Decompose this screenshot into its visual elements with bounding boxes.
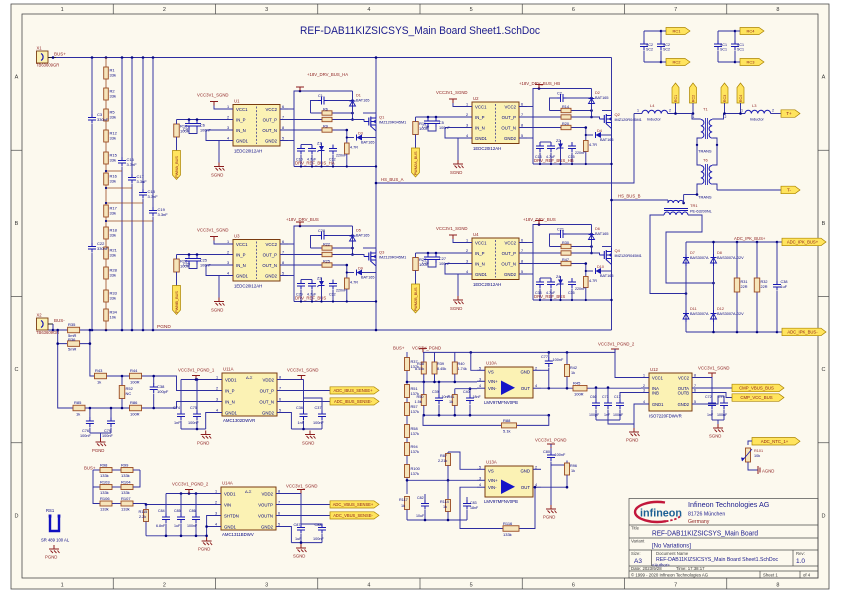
svg-text:GND2: GND2 <box>265 273 278 278</box>
svg-text:Germany: Germany <box>688 519 710 525</box>
svg-text:C75: C75 <box>190 406 197 410</box>
capacitor C84 6.8nF <box>165 494 167 515</box>
gate driver U4 (1EDC20I12AH) <box>472 238 519 280</box>
wire U10A GND <box>541 369 549 371</box>
svg-text:3: 3 <box>265 583 268 589</box>
svg-text:VDD1: VDD1 <box>224 491 236 496</box>
svg-text:C1: C1 <box>318 94 323 98</box>
wire bridge right leg <box>713 242 715 332</box>
resistor R96 1k <box>551 464 567 466</box>
connector X1 <box>37 51 49 63</box>
svg-text:VCC3V1_PGND_2: VCC3V1_PGND_2 <box>598 342 635 347</box>
svg-text:Date: 2023/9/28: Date: 2023/9/28 <box>631 566 662 571</box>
transformer T1 primary winding <box>692 114 701 120</box>
resistor R23 gate <box>288 255 364 257</box>
svg-text:33k: 33k <box>110 211 116 216</box>
svg-text:VCC3V1_SGND: VCC3V1_SGND <box>698 366 730 371</box>
resistor R94 137k <box>405 443 410 456</box>
ground SGND U14A <box>291 542 322 544</box>
resistor R86 100R <box>130 405 142 411</box>
svg-text:R14: R14 <box>562 105 569 109</box>
svg-text:33k: 33k <box>110 296 116 301</box>
wire U12 INB <box>620 393 641 401</box>
svg-text:100nF: 100nF <box>188 421 199 425</box>
svg-text:BAT165: BAT165 <box>595 232 608 236</box>
svg-text:4: 4 <box>535 384 537 388</box>
wire sense+ branch <box>90 344 214 391</box>
wire TR1 to bridge right <box>666 215 714 283</box>
diode D9 BAT165 <box>347 272 354 274</box>
svg-text:GND2: GND2 <box>504 272 517 277</box>
svg-text:[No Variations]: [No Variations] <box>652 544 691 550</box>
svg-text:7: 7 <box>279 387 281 391</box>
svg-text:SC1: SC1 <box>737 43 744 47</box>
wire +18V rail of U2 <box>527 106 533 108</box>
svg-text:6: 6 <box>282 105 284 109</box>
svg-text:U2: U2 <box>473 96 479 101</box>
svg-text:SGND: SGND <box>450 306 462 311</box>
svg-text:IN_P: IN_P <box>236 117 246 122</box>
svg-text:22R: 22R <box>741 285 748 289</box>
svg-text:Document Name: Document Name <box>656 551 689 556</box>
svg-text:R117: R117 <box>399 498 408 502</box>
svg-text:R87: R87 <box>440 454 447 458</box>
svg-text:Sheet 1: Sheet 1 <box>763 573 778 578</box>
svg-text:SGND: SGND <box>211 173 223 178</box>
svg-text:IN_N: IN_N <box>236 128 246 133</box>
capacitor C32 220nF <box>332 280 334 284</box>
svg-text:R88: R88 <box>503 418 511 423</box>
wire DRV_REF rail of U2 <box>533 163 612 165</box>
svg-text:IN_N: IN_N <box>225 399 235 404</box>
svg-text:5: 5 <box>470 583 473 589</box>
svg-text:ADC_VBUS_SENSE+: ADC_VBUS_SENSE+ <box>333 502 374 507</box>
zener Z3 <box>321 278 323 302</box>
svg-text:GND2: GND2 <box>504 136 517 141</box>
svg-text:IN_P: IN_P <box>475 251 485 256</box>
resistor R24 4.7R <box>584 141 589 152</box>
svg-text:Z3: Z3 <box>317 277 321 281</box>
svg-text:1: 1 <box>215 490 217 494</box>
wire U13A VIN- feedback <box>460 487 535 528</box>
ground PGND RS1 <box>53 545 55 549</box>
svg-text:10k: 10k <box>110 315 116 320</box>
resistor R36 5mR <box>58 330 67 344</box>
svg-text:GND1: GND1 <box>236 273 249 278</box>
resistor R31 22R <box>736 242 738 332</box>
wire U10A OUT <box>541 387 641 389</box>
resistor R28 <box>104 267 109 279</box>
svg-text:IMZ120R045M1: IMZ120R045M1 <box>379 121 406 125</box>
resistor R10 100R <box>177 119 226 121</box>
svg-text:4: 4 <box>643 400 645 404</box>
svg-text:Z1: Z1 <box>317 142 321 146</box>
svg-text:GND1: GND1 <box>224 524 237 529</box>
svg-text:R96: R96 <box>570 464 577 468</box>
svg-text:VCC2: VCC2 <box>505 240 517 245</box>
svg-text:1k: 1k <box>449 400 453 404</box>
svg-text:VS: VS <box>488 468 494 473</box>
svg-text:R32: R32 <box>761 280 768 284</box>
capacitor C1 <box>311 101 320 114</box>
title block frame <box>629 499 818 579</box>
svg-text:8: 8 <box>521 124 523 128</box>
svg-text:R31: R31 <box>741 280 748 284</box>
svg-text:U14A: U14A <box>222 481 233 486</box>
port RC2 <box>666 59 690 66</box>
svg-text:SC1: SC1 <box>737 48 744 52</box>
svg-text:R22: R22 <box>323 243 330 247</box>
port RC1 <box>666 28 690 35</box>
svg-text:A3: A3 <box>634 558 642 565</box>
svg-text:2: 2 <box>163 7 166 13</box>
capacitor C23 1nF <box>188 253 191 256</box>
ground PGND U12 <box>596 419 620 421</box>
svg-text:C4: C4 <box>183 128 188 132</box>
svg-text:1uF: 1uF <box>781 285 788 289</box>
wire U12 GND2 <box>700 396 724 404</box>
svg-text:Size:: Size: <box>631 551 641 556</box>
port PWMA_BUS <box>176 137 178 151</box>
resistor R45 100R <box>573 385 587 391</box>
svg-text:1: 1 <box>466 239 468 243</box>
svg-text:4: 4 <box>367 7 370 13</box>
resistor R18 <box>104 227 109 239</box>
svg-text:SGND: SGND <box>211 308 223 313</box>
resistor R100 137k <box>405 465 410 478</box>
svg-text:1: 1 <box>61 583 64 589</box>
wire U13A OUT <box>541 486 567 488</box>
capacitor C60 100pF <box>595 388 597 401</box>
svg-text:ADC_IPK_BUS-: ADC_IPK_BUS- <box>787 330 818 335</box>
svg-text:8: 8 <box>776 7 779 13</box>
svg-text:81726 München: 81726 München <box>688 512 725 518</box>
svg-text:VCC2: VCC2 <box>266 242 278 247</box>
port ADC_IBUS_SENSE- <box>285 401 330 403</box>
svg-text:7: 7 <box>282 251 284 255</box>
resistor R52 NC <box>121 376 123 385</box>
svg-text:BAS3007A: BAS3007A <box>690 312 709 316</box>
svg-text:BUS-: BUS- <box>54 318 65 323</box>
svg-text:PWMB_BUS: PWMB_BUS <box>175 291 179 313</box>
svg-text:BAT165: BAT165 <box>595 96 608 100</box>
svg-text:infineon: infineon <box>640 508 682 520</box>
svg-text:TRANS: TRANS <box>698 195 712 200</box>
capacitor C33 4.7uF <box>539 278 541 282</box>
wire GND2 of U1 <box>288 140 294 142</box>
svg-text:C84: C84 <box>158 509 165 513</box>
resistor R11 100R <box>416 116 465 118</box>
svg-text:4.7R: 4.7R <box>589 279 597 283</box>
resistor R30 <box>550 246 592 248</box>
resistor R20 <box>527 127 586 129</box>
resistor R104 133k <box>112 486 121 488</box>
svg-text:R101: R101 <box>754 449 763 453</box>
svg-text:BUS+: BUS+ <box>54 52 66 57</box>
diode D10 BAT165 <box>586 270 593 272</box>
zener Z4 <box>560 276 562 300</box>
svg-text:4: 4 <box>227 137 229 141</box>
svg-text:TB63609GR: TB63609GR <box>36 63 59 68</box>
port ADC_VBUS_SENSE+ <box>283 504 330 506</box>
connector X2 <box>37 318 49 330</box>
svg-text:2: 2 <box>466 113 468 117</box>
svg-text:C79: C79 <box>104 429 111 433</box>
svg-text:U13A: U13A <box>486 460 497 465</box>
diode D1 BAT165 <box>352 91 354 120</box>
svg-text:OUT_P: OUT_P <box>263 117 277 122</box>
svg-text:BAT165: BAT165 <box>356 99 369 103</box>
svg-text:133k: 133k <box>121 507 130 512</box>
capacitor C6 100nF <box>196 118 199 121</box>
svg-text:VDD2: VDD2 <box>262 491 274 496</box>
ground PGND U11A <box>181 428 206 430</box>
svg-text:1nF: 1nF <box>707 413 714 417</box>
wire GND2 U14A <box>283 527 291 543</box>
svg-text:D1: D1 <box>356 94 361 98</box>
wire DRV_REF rail of U4 <box>533 299 612 301</box>
svg-text:U4: U4 <box>473 232 479 237</box>
svg-text:GND1: GND1 <box>225 410 238 415</box>
resistor R34 <box>104 309 109 321</box>
capacitor C3 <box>91 58 93 115</box>
capacitor C13 4.7uF <box>539 142 541 146</box>
svg-text:IN_P: IN_P <box>236 252 246 257</box>
svg-text:5: 5 <box>278 523 280 527</box>
mosfet Q4 IMZ120R045M1 <box>605 250 607 260</box>
capacitor C4 1nF <box>188 118 191 121</box>
svg-text:7: 7 <box>521 249 523 253</box>
svg-text:6: 6 <box>694 389 696 393</box>
svg-text:R6: R6 <box>323 108 328 112</box>
wire ladder tap <box>106 202 143 204</box>
svg-text:1EDC20I12AH: 1EDC20I12AH <box>234 284 262 289</box>
capacitor C10 4.7uF <box>300 145 302 149</box>
svg-text:137k: 137k <box>411 431 419 436</box>
svg-text:7: 7 <box>674 7 677 13</box>
svg-text:18nF: 18nF <box>473 395 482 399</box>
svg-text:U12: U12 <box>650 367 658 372</box>
capacitor C21 <box>550 234 559 247</box>
svg-text:VCC3V1_PGND_2: VCC3V1_PGND_2 <box>172 482 209 487</box>
svg-text:GND: GND <box>520 468 530 473</box>
svg-text:2: 2 <box>725 115 727 119</box>
resistor R25 <box>288 264 347 266</box>
svg-text:VIN+: VIN+ <box>488 379 498 384</box>
svg-text:R20: R20 <box>562 122 569 126</box>
resistor R27 100R <box>416 252 465 254</box>
wire bridge top rail <box>686 241 777 243</box>
svg-text:3: 3 <box>643 389 645 393</box>
svg-text:R114: R114 <box>440 500 449 504</box>
wire ladder tap <box>106 187 132 189</box>
svg-text:3: 3 <box>466 124 468 128</box>
svg-text:R43: R43 <box>95 368 103 373</box>
svg-text:VCC2: VCC2 <box>505 104 517 109</box>
wire bridge bottom rail <box>686 331 777 333</box>
svg-text:SGND: SGND <box>293 554 305 559</box>
svg-text:100R: 100R <box>130 380 140 385</box>
svg-text:A: A <box>15 75 19 81</box>
svg-text:5: 5 <box>282 272 284 276</box>
svg-text:8: 8 <box>282 126 284 130</box>
svg-text:IN_N: IN_N <box>475 261 485 266</box>
svg-text:ADC_IPK_BUS+: ADC_IPK_BUS+ <box>734 236 766 241</box>
svg-text:VCC1: VCC1 <box>475 240 487 245</box>
svg-text:+18V_DRV_BUS: +18V_DRV_BUS <box>286 217 319 222</box>
resistor R117 1k <box>405 497 410 510</box>
svg-text:R106: R106 <box>100 496 110 501</box>
svg-text:IN_N: IN_N <box>475 125 485 130</box>
gate driver U1 (1EDC20I12AH) <box>233 105 280 147</box>
wire GND2 U11A <box>285 413 291 430</box>
capacitor C18 <box>142 58 144 190</box>
svg-text:R45: R45 <box>573 381 581 386</box>
port ADC_IPK_BUS- <box>777 331 782 333</box>
resistor R32 22R <box>756 242 758 332</box>
svg-text:C77: C77 <box>541 355 548 359</box>
svg-text:VIN: VIN <box>224 502 231 507</box>
svg-text:Title: Title <box>631 526 640 531</box>
svg-text:133k: 133k <box>100 473 109 478</box>
svg-text:R86: R86 <box>130 400 138 405</box>
svg-text:C38: C38 <box>781 280 788 284</box>
resistor R26 100R <box>177 254 226 256</box>
svg-text:SC2: SC2 <box>646 43 653 47</box>
svg-text:RC1: RC1 <box>674 95 678 103</box>
svg-text:6: 6 <box>521 103 523 107</box>
diode D11 BAS3007A-02V <box>683 314 689 320</box>
wire phase leg A <box>375 58 377 331</box>
capacitor C2 <box>550 98 559 111</box>
svg-text:4: 4 <box>215 523 217 527</box>
svg-text:100R: 100R <box>574 392 584 397</box>
svg-text:L4: L4 <box>650 103 655 108</box>
resistor R42 1k <box>566 352 568 364</box>
svg-text:R116: R116 <box>503 521 513 526</box>
svg-text:GND2: GND2 <box>262 410 275 415</box>
svg-text:4: 4 <box>227 272 229 276</box>
diode D5 BAT165 <box>352 226 354 255</box>
svg-text:CMP_VBUS_BUS: CMP_VBUS_BUS <box>739 386 774 391</box>
svg-text:2: 2 <box>535 366 537 370</box>
svg-text:C35: C35 <box>568 291 575 295</box>
svg-text:Z4: Z4 <box>556 275 560 279</box>
capacitor C75 100nF <box>196 378 199 381</box>
ground SGND U11A <box>291 428 322 430</box>
svg-text:GND1: GND1 <box>652 402 664 407</box>
ground SGND of U1 <box>219 141 225 163</box>
svg-text:D5: D5 <box>356 229 361 233</box>
wire ladder chain <box>105 58 107 331</box>
svg-text:BUS+: BUS+ <box>393 346 405 351</box>
svg-text:OUTB: OUTB <box>678 390 690 395</box>
svg-text:330nF: 330nF <box>97 117 109 122</box>
svg-text:1EDC20I12AH: 1EDC20I12AH <box>234 149 262 154</box>
resistor R88 5.1k <box>423 415 501 425</box>
svg-text:C17: C17 <box>614 395 621 399</box>
svg-text:D11: D11 <box>690 307 697 311</box>
resistor R9 <box>288 129 347 131</box>
port T- <box>717 189 781 191</box>
capacitor C16 <box>121 58 123 158</box>
svg-text:33k: 33k <box>110 253 116 258</box>
svg-text:5: 5 <box>479 465 481 469</box>
svg-text:C28: C28 <box>318 229 325 233</box>
resistor R116 133k <box>503 526 519 532</box>
svg-text:VCC3V1_SGND: VCC3V1_SGND <box>436 226 468 231</box>
resistor R14 <box>550 110 592 112</box>
wire IN_N of U2 <box>445 128 464 139</box>
svg-text:C6: C6 <box>200 124 205 128</box>
svg-text:BAT165: BAT165 <box>356 234 369 238</box>
svg-text:C86: C86 <box>189 509 196 513</box>
svg-text:Q1: Q1 <box>379 115 385 120</box>
svg-text:C: C <box>15 367 19 373</box>
wire GND2 of U4 <box>527 273 533 275</box>
svg-text:VCC2: VCC2 <box>266 107 278 112</box>
svg-text:5: 5 <box>479 366 481 370</box>
svg-text:1.0: 1.0 <box>796 558 805 565</box>
svg-text:1.74k: 1.74k <box>458 367 467 371</box>
resistor R17 <box>104 205 109 217</box>
svg-text:C72: C72 <box>705 395 712 399</box>
svg-text:3: 3 <box>227 261 229 265</box>
svg-text:8.45k: 8.45k <box>415 367 424 371</box>
wire OUT_N branch of U1 <box>346 130 348 143</box>
digital isolator U12 ISO7220 <box>649 373 692 411</box>
svg-text:1k: 1k <box>571 469 575 473</box>
svg-text:Inductor: Inductor <box>647 118 661 122</box>
wire op-amp U10A VIN+ net <box>407 381 477 383</box>
svg-text:R44: R44 <box>130 368 138 373</box>
svg-text:133k: 133k <box>100 507 109 512</box>
resistor R37 137k <box>405 358 410 371</box>
wire U10A VS <box>471 352 477 370</box>
svg-text:2.2k: 2.2k <box>139 515 146 519</box>
wire HS_BUS_B <box>612 199 669 201</box>
svg-text:5: 5 <box>521 270 523 274</box>
svg-text:133k: 133k <box>100 490 109 495</box>
svg-text:BAT165: BAT165 <box>361 141 374 145</box>
port RC4 <box>740 28 764 35</box>
resistor R2 <box>104 88 109 100</box>
svg-text:1uF: 1uF <box>295 537 302 541</box>
svg-text:137k: 137k <box>411 449 419 454</box>
svg-text:VCC1: VCC1 <box>475 104 487 109</box>
svg-text:DRV_REF_BUS_HA: DRV_REF_BUS_HA <box>295 161 335 166</box>
svg-text:3.3nF: 3.3nF <box>158 212 169 217</box>
wire VIN U14A <box>133 504 213 505</box>
svg-text:4: 4 <box>479 483 481 487</box>
svg-text:33k: 33k <box>110 179 116 184</box>
wire sense- branch <box>58 344 214 408</box>
svg-text:BAS3007A: BAS3007A <box>690 256 709 260</box>
wire OUT_N branch of U2 <box>585 128 587 141</box>
svg-text:220nF: 220nF <box>575 151 586 155</box>
svg-text:IN_P: IN_P <box>225 388 235 393</box>
svg-text:100nF: 100nF <box>80 434 91 438</box>
svg-text:7: 7 <box>521 113 523 117</box>
wire bottom gnd rail divider <box>407 519 467 521</box>
svg-text:+18V_DRV_BUS_HB: +18V_DRV_BUS_HB <box>519 81 560 86</box>
wire bridge left leg <box>685 242 687 332</box>
svg-text:REF-DAB11KIZSICSYS_Main Board: REF-DAB11KIZSICSYS_Main Board Sheet1.Sch… <box>300 25 540 37</box>
wire U13A VS <box>448 452 477 469</box>
wire +18V rail of U1 <box>288 108 294 110</box>
svg-text:SGND: SGND <box>709 434 721 439</box>
svg-text:OUT_P: OUT_P <box>260 388 274 393</box>
